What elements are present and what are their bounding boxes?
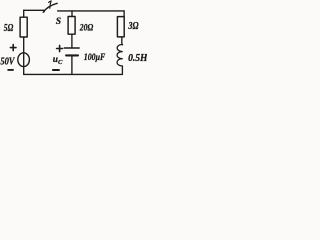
- resistor 5ohm body: [20, 17, 27, 37]
- resistor 20ohm body: [68, 17, 75, 35]
- wire middle below capacitor: [71, 56, 73, 74]
- wire middle branch stem: [71, 11, 73, 17]
- wire right corner stem: [123, 11, 125, 17]
- wire top-left segment: [24, 10, 45, 11]
- capacitor polarity minus sign: [53, 69, 59, 71]
- wire bottom: [24, 73, 123, 75]
- svg-text:3Ω: 3Ω: [128, 21, 139, 32]
- svg-text:50V: 50V: [0, 57, 15, 68]
- svg-text:0.5H: 0.5H: [128, 53, 147, 64]
- source 50V circle: [18, 53, 30, 67]
- capacitor 100uF top plate: [64, 47, 79, 49]
- svg-text:5Ω: 5Ω: [4, 23, 14, 34]
- wire left branch through source: [23, 37, 25, 74]
- wire top-right segment: [58, 10, 125, 12]
- capacitor 100uF bottom plate: [66, 54, 78, 56]
- svg-text:S: S: [56, 16, 61, 27]
- inductor 0.5H coil: [117, 44, 122, 66]
- source polarity plus sign: [10, 45, 16, 51]
- resistor 3ohm body: [117, 17, 124, 37]
- capacitor polarity plus sign: [57, 45, 63, 51]
- svg-text:100μF: 100μF: [84, 53, 106, 63]
- source polarity minus sign: [8, 69, 13, 71]
- wire middle below resistor: [71, 34, 73, 48]
- wire below inductor: [121, 66, 123, 74]
- svg-text:20Ω: 20Ω: [79, 23, 94, 34]
- switch S blade: [43, 3, 57, 12]
- wire below 3ohm resistor: [121, 37, 124, 45]
- wire left branch stem top: [23, 10, 25, 17]
- svg-text:uC: uC: [53, 55, 63, 66]
- switch S actuation tick: [49, 1, 52, 8]
